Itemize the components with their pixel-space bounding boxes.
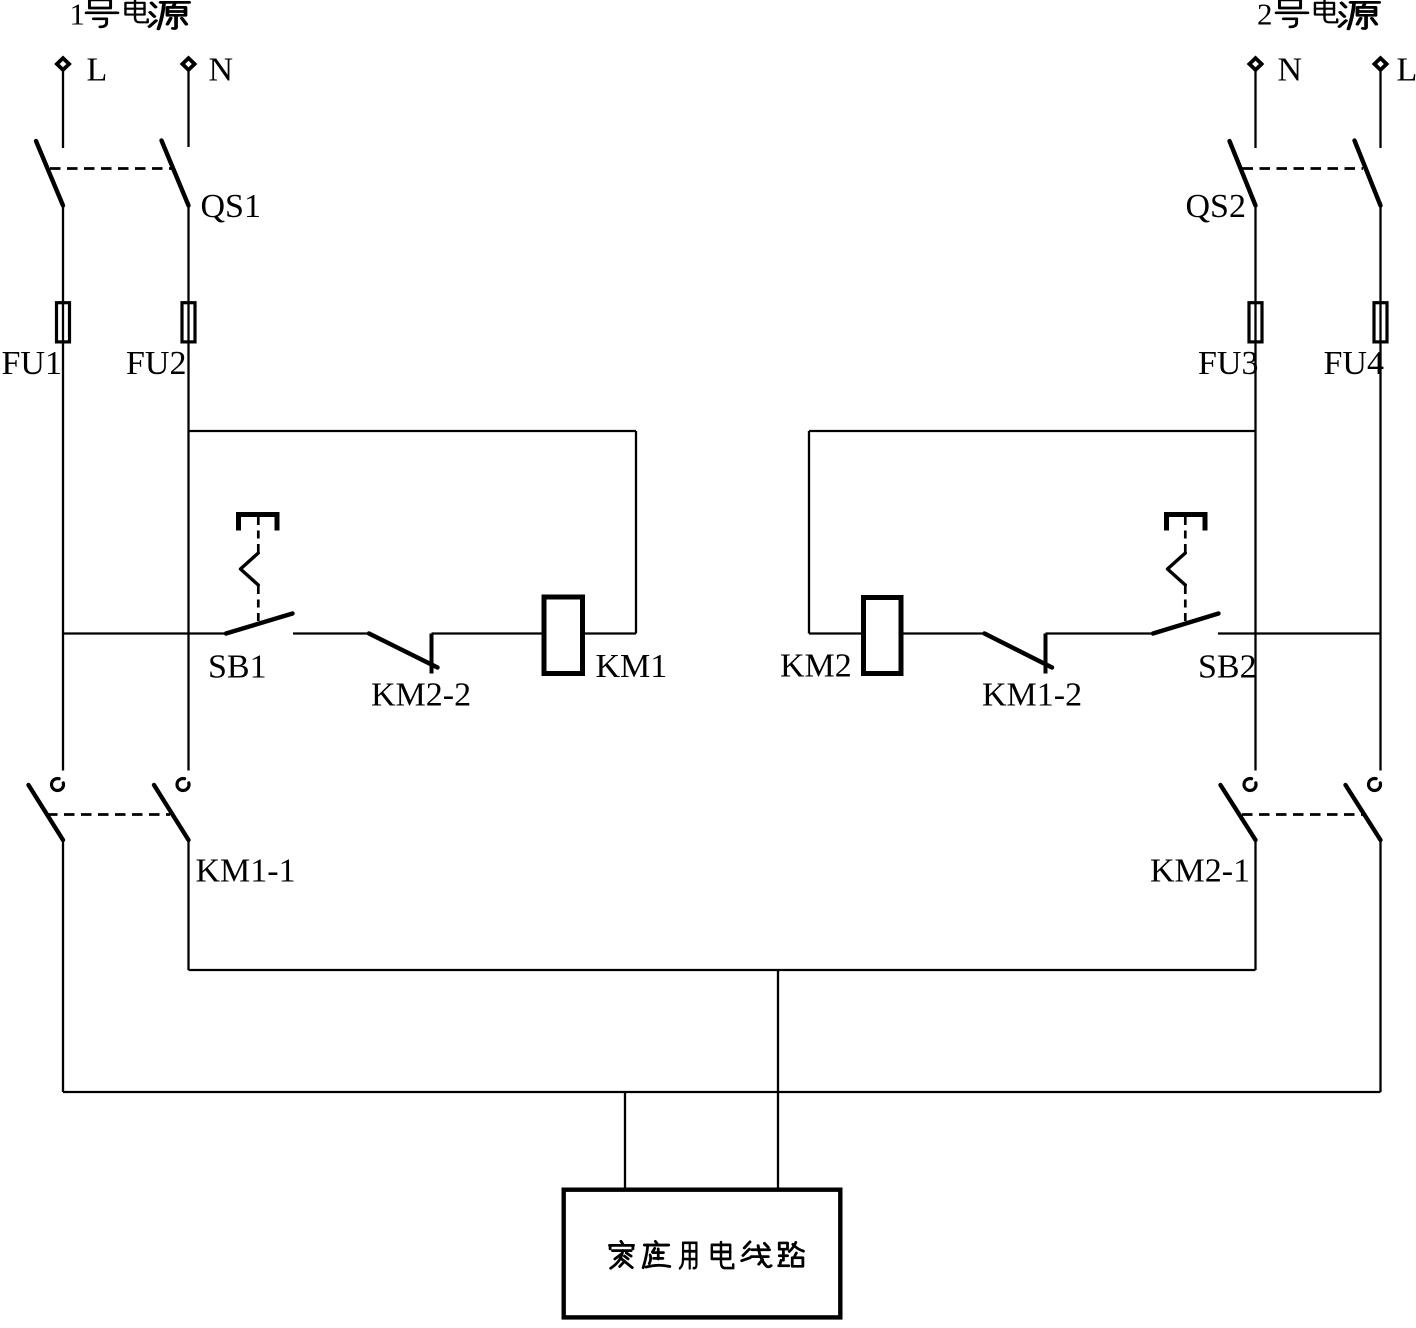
svg-text:FU4: FU4 xyxy=(1324,345,1384,382)
svg-text:KM2-2: KM2-2 xyxy=(371,677,471,714)
svg-text:SB2: SB2 xyxy=(1198,649,1257,686)
svg-text:QS2: QS2 xyxy=(1186,188,1246,225)
svg-text:L: L xyxy=(87,52,108,89)
svg-text:N: N xyxy=(209,52,234,89)
svg-text:SB1: SB1 xyxy=(208,649,267,686)
svg-text:N: N xyxy=(1278,52,1303,89)
svg-text:KM2: KM2 xyxy=(780,648,852,685)
svg-text:FU1: FU1 xyxy=(2,345,62,382)
svg-text:KM2-1: KM2-1 xyxy=(1150,853,1250,890)
svg-text:2: 2 xyxy=(1257,0,1273,32)
svg-text:FU3: FU3 xyxy=(1198,345,1258,382)
svg-text:FU2: FU2 xyxy=(126,345,186,382)
svg-text:KM1-2: KM1-2 xyxy=(982,677,1082,714)
svg-text:L: L xyxy=(1397,52,1416,89)
svg-text:1: 1 xyxy=(70,0,86,32)
svg-text:KM1-1: KM1-1 xyxy=(196,853,296,890)
svg-text:QS1: QS1 xyxy=(201,188,261,225)
svg-text:KM1: KM1 xyxy=(596,648,668,685)
